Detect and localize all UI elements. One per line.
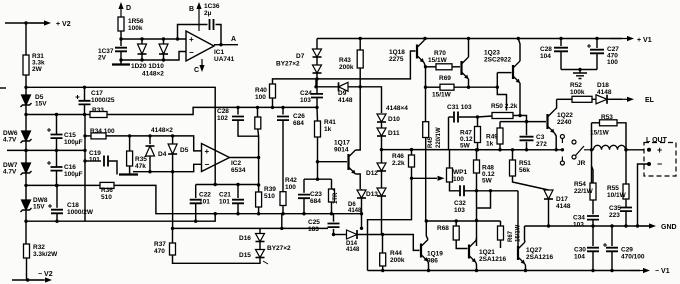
- wire Q21 collector up: [475, 238, 478, 241]
- wire R48 top lead: [476, 150, 478, 160]
- diode D7a: [313, 49, 322, 57]
- wire R37 to D15: [173, 255, 261, 263]
- wire Q18 emitter to R69: [425, 67, 427, 87]
- svg-text:15/1W: 15/1W: [428, 57, 448, 64]
- svg-text:R39510: R39510: [264, 186, 276, 200]
- resistor R39: [256, 192, 262, 207]
- wire C22 top lead: [195, 185, 197, 199]
- resistor R45: [423, 122, 429, 138]
- ground bar under 1C37: [120, 60, 122, 64]
- svg-text:B: B: [189, 6, 194, 13]
- resistor R69: [440, 84, 454, 90]
- wire C23 top lead: [303, 179, 305, 193]
- resistor R34: [91, 133, 106, 139]
- svg-text:4148×4: 4148×4: [386, 105, 408, 112]
- wire Q18 emitter col to R45: [425, 87, 427, 122]
- wire D11 to D12: [381, 136, 383, 163]
- capacitor C15: [47, 128, 63, 138]
- wire bus y221: [26, 214, 215, 222]
- svg-text:EL: EL: [645, 97, 655, 104]
- wire R51 top lead: [512, 150, 514, 160]
- wire +V2 feed: [5, 22, 44, 24]
- junction bar R35/C19: [119, 173, 138, 175]
- diode D7b: [313, 65, 322, 73]
- resistor R44: [380, 253, 386, 266]
- wire D13 to D14 node: [381, 196, 383, 235]
- arrowhead GND: [640, 223, 656, 228]
- diode D17: [544, 190, 553, 199]
- wire R43 bottom lead: [359, 68, 361, 87]
- svg-text:D15: D15: [239, 252, 251, 259]
- svg-text:C: C: [194, 67, 199, 74]
- node rail y87: [24, 86, 27, 89]
- wire chain tap to R46: [382, 149, 412, 151]
- wire C28 bottom loop: [238, 120, 259, 136]
- wire C21 top lead: [237, 185, 239, 199]
- wire D5 to DW6: [25, 105, 27, 131]
- wire IC2 output: [230, 157, 259, 159]
- diode D11: [377, 128, 386, 136]
- wire R31 to D5: [25, 75, 27, 95]
- wire 1R56 net D: [118, 2, 123, 17]
- capacitor C23: [298, 195, 310, 199]
- svg-text:C22101: C22101: [199, 192, 211, 206]
- wire D16-D15: [259, 242, 261, 250]
- wire R40 top to Q18 base: [273, 51, 416, 84]
- svg-text:C23684: C23684: [310, 191, 322, 205]
- svg-text:R5156k: R5156k: [519, 160, 531, 174]
- wire R49 top lead: [499, 122, 501, 128]
- wire C26 top lead: [282, 107, 284, 114]
- svg-text:+: +: [205, 147, 210, 156]
- resistor R50: [492, 113, 513, 119]
- wire R38 to IC2 output: [257, 129, 260, 158]
- svg-text:− V1: − V1: [655, 268, 670, 275]
- svg-text:220/1W: 220/1W: [436, 127, 442, 148]
- zener DW6: [21, 131, 32, 143]
- svg-text:+ V1: + V1: [637, 37, 652, 44]
- diode D10: [377, 114, 386, 122]
- wire 1D10 bottom lead: [163, 54, 165, 60]
- svg-text:C35223: C35223: [609, 205, 621, 219]
- wire R39 bottom lead: [258, 207, 260, 214]
- wire R41 to C23 loop: [317, 137, 319, 178]
- wire 1D20 bottom lead: [141, 54, 143, 60]
- svg-text:DW64.7V: DW64.7V: [3, 130, 18, 144]
- wire R52 to D18: [592, 98, 596, 100]
- wire Q21 emitter down: [475, 263, 478, 271]
- wire D12 to D13: [381, 171, 383, 188]
- svg-text:R70: R70: [434, 50, 446, 57]
- wire D4 top lead: [149, 136, 151, 144]
- resistor R47: [475, 127, 481, 143]
- wire to IC2 - input: [133, 164, 202, 171]
- wire C25 top lead: [333, 214, 335, 222]
- wire R32 to -V2: [26, 258, 28, 280]
- wire -V2 feed: [12, 279, 44, 281]
- svg-text:D12: D12: [366, 170, 378, 177]
- wire Q18 collector: [424, 39, 425, 41]
- svg-text:R40100: R40100: [255, 87, 267, 101]
- capacitor C27: [587, 44, 604, 53]
- svg-text:C28102: C28102: [217, 108, 229, 122]
- wire D6 column upper: [361, 189, 363, 214]
- wire C18b top lead: [237, 107, 239, 114]
- svg-text:BY27×2: BY27×2: [267, 245, 291, 252]
- wire C18 bottom lead: [56, 214, 58, 222]
- wire C27 bottom lead: [596, 54, 598, 70]
- diode D14: [347, 230, 358, 239]
- wire C34 bottom lead: [592, 220, 594, 226]
- diode D4: [146, 146, 155, 156]
- C23/1TR loop top: [304, 178, 332, 180]
- wire C23 bottom lead: [303, 198, 305, 213]
- wire Q19 collector up: [426, 221, 428, 240]
- arrowhead -V1: [630, 268, 650, 273]
- capacitor C31: [454, 112, 458, 123]
- svg-text:C31 103: C31 103: [447, 104, 472, 111]
- -V1 bottom rail: [368, 270, 641, 272]
- svg-text:4148×2: 4148×2: [151, 127, 173, 134]
- arrowhead +V1: [610, 36, 634, 41]
- wire R31 top lead: [25, 23, 27, 55]
- resistor 1R56: [118, 17, 124, 31]
- wire R70 right to M base: [452, 66, 460, 68]
- wire Q19 emitter down: [427, 262, 430, 271]
- wire x85 vertical: [84, 115, 86, 222]
- wire bus tap down: [281, 214, 283, 229]
- svg-text:C27470100: C27470100: [607, 46, 619, 66]
- svg-text:D7: D7: [296, 53, 305, 60]
- wire C31 left: [449, 116, 454, 118]
- wire D16 top lead: [259, 228, 261, 233]
- svg-text:+: +: [657, 145, 662, 155]
- diode 1D20: [138, 44, 147, 54]
- wire C29 bottom lead: [611, 252, 613, 271]
- wire R52 left: [557, 98, 572, 100]
- wire feedback 1C36 left: [178, 25, 208, 40]
- svg-text:DW74.7V: DW74.7V: [3, 162, 18, 176]
- wire R46 bottom lead: [411, 167, 413, 178]
- wire D14 to Q19 base: [357, 235, 420, 251]
- wire C31 left drop: [448, 117, 450, 150]
- wire DW8 to R32: [25, 210, 27, 244]
- wire R54 to C34: [592, 200, 594, 214]
- svg-text:D4: D4: [158, 151, 167, 158]
- resistor R41: [315, 121, 321, 137]
- svg-text:−: −: [205, 160, 210, 169]
- wire C19 right lead: [109, 161, 118, 175]
- capacitor C17: [76, 95, 91, 104]
- wire C30 bottom lead: [592, 252, 594, 271]
- wire OUT - return to GND: [638, 164, 650, 226]
- wire R35 top lead: [129, 136, 131, 151]
- wire D7 mid: [316, 57, 318, 65]
- resistor R68: [453, 226, 459, 240]
- wire mid rail y150: [7, 149, 85, 151]
- resistor R46: [409, 155, 415, 167]
- capacitor C22: [190, 200, 202, 204]
- svg-text:C25183: C25183: [308, 219, 320, 233]
- svg-text:D: D: [126, 5, 131, 12]
- svg-text:+ V2: + V2: [56, 21, 71, 28]
- wire R37 top lead: [172, 228, 174, 243]
- svg-text:−: −: [189, 48, 194, 57]
- svg-text:R462.2k: R462.2k: [392, 153, 405, 167]
- wire WP1 top lead: [449, 150, 451, 168]
- wire C17 top lead: [84, 87, 86, 100]
- svg-text:− V2: − V2: [38, 271, 53, 278]
- wire D18 to EL: [607, 98, 622, 100]
- wire M emitter node to R50 area: [497, 73, 506, 111]
- wire C15 top lead: [56, 115, 58, 135]
- wire 1D10 top lead: [163, 39, 165, 44]
- wire R43 top lead: [359, 39, 361, 51]
- wire D5 to R33: [26, 114, 90, 116]
- speaker terminal box: [644, 143, 676, 177]
- op-amp IC1 UA741: [186, 31, 214, 61]
- transistor 1Q22: [548, 110, 555, 133]
- resistor R40: [270, 84, 276, 98]
- svg-text:1Q222240: 1Q222240: [557, 112, 573, 126]
- wire D9 to diode chain: [348, 87, 382, 113]
- wire to L OUT +: [626, 149, 644, 151]
- svg-text:JR: JR: [577, 160, 586, 167]
- wire 1R56 bottom lead: [120, 31, 122, 39]
- zener DW8: [21, 200, 32, 212]
- wire DW6 to DW7: [25, 141, 27, 163]
- wire C25 to D14: [334, 234, 347, 236]
- wire R53 right: [617, 123, 626, 143]
- node C17 top: [83, 86, 86, 89]
- wire R38 top lead: [257, 107, 259, 117]
- diode D18: [596, 95, 607, 104]
- capacitor C21: [232, 200, 244, 204]
- svg-text:C21101: C21101: [219, 192, 231, 206]
- wire C18 top lead: [56, 185, 58, 207]
- wire C15 bottom lead: [56, 139, 58, 151]
- wire output down: [258, 158, 260, 186]
- transistor 1Q17: [349, 150, 356, 174]
- wire Q23 base: [497, 72, 511, 74]
- transistor M (driver): [462, 57, 469, 79]
- capacitor C18: [48, 204, 63, 213]
- transistor 1Q21: [469, 241, 476, 263]
- wire C28 top lead: [560, 39, 562, 47]
- wire y184 compensation rail: [215, 184, 258, 186]
- wire net D rail y39: [121, 38, 186, 40]
- thermistor 1TR: [329, 189, 335, 202]
- svg-text:15/1W: 15/1W: [590, 130, 610, 137]
- wire M collector: [468, 39, 470, 58]
- wire 1TR top lead: [331, 179, 333, 189]
- wire D10-D11: [381, 122, 383, 128]
- wire R70 left: [426, 66, 437, 68]
- wire R55 to C35: [625, 199, 627, 207]
- wire coil left vertical: [591, 123, 593, 183]
- diode D12: [377, 163, 386, 171]
- op-amp IC2 6534: [202, 144, 230, 172]
- wire C21 bottom lead: [237, 204, 239, 214]
- wire Q23 collector: [518, 39, 520, 62]
- wire R42 bottom lead: [282, 206, 284, 214]
- resistor R32: [24, 244, 30, 258]
- wire Q23 emitter down: [519, 83, 521, 116]
- wire D7 top lead: [316, 39, 318, 50]
- wire 1C37 bottom lead: [120, 52, 122, 61]
- wire y228 rail: [173, 227, 329, 229]
- wire C22 bottom lead: [195, 204, 197, 222]
- tick left edge: [0, 87, 6, 89]
- wire C30 top lead: [592, 226, 594, 246]
- svg-text:R37470: R37470: [154, 241, 166, 255]
- svg-text:R36510: R36510: [101, 187, 113, 201]
- tick at D15 bottom: [263, 261, 268, 264]
- capacitor C30: [587, 248, 599, 252]
- wire coil right down: [625, 143, 627, 184]
- wire R46 top lead: [411, 150, 413, 155]
- wire feedback drop to R37 node: [172, 172, 174, 229]
- wire R67 top lead: [500, 221, 502, 226]
- wire R44 bottom lead: [382, 266, 384, 271]
- wire Q27 base drop: [517, 191, 519, 248]
- svg-text:15/1W: 15/1W: [432, 92, 452, 99]
- diode D9: [339, 82, 349, 91]
- svg-text:+: +: [189, 35, 194, 44]
- GND rail: [525, 225, 651, 227]
- wire Q27 collector up: [524, 226, 527, 242]
- wire M emitter down: [468, 79, 470, 87]
- resistor R51: [510, 160, 516, 176]
- wire R33 to feedback node line y107: [107, 107, 317, 114]
- wire R40 bottom lead: [272, 98, 274, 107]
- svg-text:R67: R67: [508, 230, 514, 242]
- wire R34 left: [85, 135, 91, 137]
- wire R46 to WP1 wiper: [412, 177, 438, 179]
- svg-text:1Q182275: 1Q182275: [389, 49, 405, 63]
- capacitor C35: [620, 208, 632, 212]
- wire D6 column to y228: [361, 214, 363, 229]
- wire D7 node down: [315, 79, 317, 87]
- wire R36 to bottom bus y213: [114, 185, 362, 213]
- transistor 1Q27: [518, 242, 525, 264]
- capacitor 1C37: [115, 48, 127, 52]
- wire +V1 top rail: [317, 38, 622, 40]
- capacitor C24: [311, 94, 323, 98]
- wire R34 line to IC2 + input: [106, 136, 202, 151]
- wire C17 bottom lead: [84, 105, 86, 115]
- wire C16 top lead: [56, 150, 58, 166]
- wire ripple rail to x215 vertical: [26, 87, 215, 184]
- wire D4 bottom lead: [149, 156, 151, 172]
- wire R53 left: [592, 122, 600, 124]
- wire R67 bottom lead: [500, 240, 502, 248]
- wire rail y60 to IC1 - input: [121, 52, 186, 61]
- svg-text:BY27×2: BY27×2: [276, 61, 300, 68]
- wire 1C37 top lead: [120, 39, 122, 46]
- wire Q17 base: [318, 161, 348, 163]
- wire IC1 output net A: [214, 44, 238, 46]
- diode D16: [256, 234, 265, 242]
- resistor R43: [357, 50, 363, 68]
- wiper arrow WP1: [438, 176, 445, 181]
- svg-text:R42100: R42100: [285, 177, 297, 191]
- resistor R52: [572, 96, 592, 102]
- wire D5b top lead: [172, 136, 174, 144]
- wire R45 down to drive rail: [425, 138, 427, 222]
- arrow net C: [199, 59, 204, 72]
- wire R48 bottom lead: [476, 173, 478, 191]
- wire C27 top lead: [596, 39, 598, 49]
- resistor R53: [600, 120, 618, 126]
- resistor R70: [436, 64, 452, 70]
- capacitor C16: [47, 161, 63, 171]
- zener D5: [21, 95, 32, 107]
- wire rail y185 left: [26, 184, 100, 186]
- capacitor C19: [104, 156, 108, 167]
- svg-text:GND: GND: [661, 224, 677, 231]
- wire R46 node return to -V1: [368, 178, 412, 270]
- arrow net B: [196, 2, 201, 31]
- wire R49 bottom lead: [499, 144, 501, 150]
- resistor R67: [498, 226, 504, 240]
- wire R69 right: [454, 86, 497, 88]
- resistor R49: [497, 128, 503, 144]
- wire Q27 emitter down: [524, 264, 527, 271]
- wire Q18 emitter: [424, 63, 426, 67]
- wire coil right stub: [625, 149, 628, 151]
- wire C29 top lead: [611, 226, 613, 246]
- svg-text:1Q179014: 1Q179014: [334, 140, 350, 154]
- wire Q17 collector up: [356, 87, 361, 150]
- wire R47 top lead: [477, 117, 479, 127]
- svg-text:C24103: C24103: [300, 90, 312, 104]
- svg-text:R68: R68: [437, 225, 449, 232]
- resistor R54: [590, 183, 596, 200]
- svg-text:D13: D13: [366, 191, 378, 198]
- resistor R35: [127, 151, 133, 166]
- wire D5b bottom lead: [172, 154, 174, 172]
- wire Q22 base: [527, 121, 547, 123]
- wire R35 bottom lead: [129, 166, 131, 174]
- wire DW7 to DW8: [25, 173, 27, 200]
- wire R51 to D17: [513, 176, 549, 190]
- svg-text:C28104: C28104: [540, 46, 552, 60]
- resistor R48: [474, 160, 480, 173]
- wire R68 to Q21 base: [456, 240, 467, 249]
- svg-text:R69: R69: [439, 75, 451, 82]
- wire R44 top lead: [382, 235, 384, 254]
- svg-text:R3547k: R3547k: [135, 156, 147, 170]
- wire C24 bottom lead: [316, 98, 318, 108]
- wire Q22 collector up: [555, 99, 557, 110]
- inductor L: [594, 145, 626, 150]
- diode D6: [357, 190, 366, 198]
- transistor 1Q23: [513, 61, 520, 83]
- capacitor C26: [277, 117, 289, 121]
- wire R39 top lead: [258, 185, 260, 192]
- wire C32 right rail: [465, 190, 519, 192]
- diode D15: [256, 250, 265, 258]
- svg-text:C32103: C32103: [454, 200, 466, 214]
- svg-text:D16: D16: [239, 235, 251, 242]
- wire R47 bottom lead: [477, 143, 479, 150]
- svg-text:4148×2: 4148×2: [142, 71, 164, 78]
- resistor R36: [100, 182, 114, 188]
- wire 1D20 top lead: [141, 39, 143, 44]
- diode 1D10: [159, 44, 168, 54]
- wire WP1 bottom to C32: [450, 182, 460, 191]
